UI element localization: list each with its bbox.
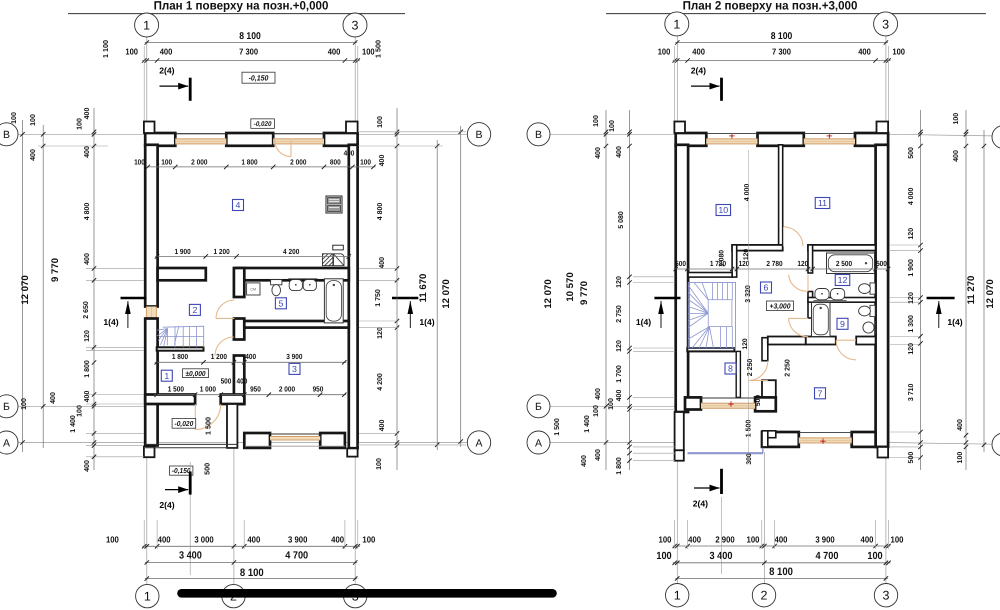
bathroom south wall (244, 321, 348, 328)
svg-text:4 200: 4 200 (377, 373, 384, 391)
axis2 wall lower seg (234, 356, 244, 405)
ext bottom r 875.6 (875, 520, 877, 549)
svg-text:Б: Б (535, 401, 542, 413)
axis circle 3 top (343, 13, 367, 37)
divider rooms 10-11 (779, 145, 783, 246)
electrical panel room4 (326, 196, 342, 213)
section mark 2(4) top (159, 65, 190, 100)
svg-text:100: 100 (957, 452, 964, 464)
svg-text:100: 100 (21, 398, 28, 410)
svg-text:400: 400 (158, 535, 171, 545)
bath9 bottom wall right (856, 337, 875, 345)
svg-text:400: 400 (160, 47, 173, 57)
radiator room4 (333, 245, 344, 250)
svg-text:1 800: 1 800 (241, 158, 257, 167)
svg-text:2 000: 2 000 (290, 158, 306, 167)
ext right r y302.2 (889, 301, 919, 303)
axis circle A right (467, 431, 490, 454)
svg-text:2 780: 2 780 (766, 259, 782, 268)
section mark 1(4) left (103, 298, 146, 328)
dim line top row2 (142, 58, 360, 62)
door bathroom D2 (216, 300, 234, 318)
svg-text:7 300: 7 300 (772, 47, 791, 57)
axis line 3 top r (885, 36, 887, 127)
terrace french window (245, 434, 345, 446)
room label 10 (716, 205, 731, 216)
bathtub room9 (812, 303, 831, 337)
svg-text:400: 400 (957, 419, 964, 431)
axis circle B right (467, 123, 490, 146)
corner block bottom-left r (675, 450, 684, 460)
svg-text:100: 100 (656, 551, 671, 562)
ext line porch v (189, 462, 191, 575)
axis circle B left r (527, 123, 550, 146)
double sink room12 (814, 289, 847, 301)
axis circle A right edge (992, 433, 1000, 456)
room10 bottom wall left part (688, 273, 732, 278)
room label 9 (837, 318, 848, 329)
bath9 bottom wall left (806, 337, 836, 345)
dim line bottom row1 r (673, 544, 891, 548)
svg-text:400: 400 (379, 257, 386, 269)
svg-text:400: 400 (858, 47, 871, 57)
balcony right wall stub (762, 431, 768, 447)
svg-text:12 070: 12 070 (543, 279, 554, 308)
svg-text:11 670: 11 670 (418, 274, 429, 303)
axis circle Bb left r (527, 395, 550, 418)
svg-text:11: 11 (818, 198, 827, 208)
svg-text:100: 100 (747, 534, 760, 544)
svg-text:400: 400 (331, 535, 344, 545)
svg-text:1 500: 1 500 (374, 40, 383, 58)
dim line under top wall (146, 165, 376, 169)
svg-text:3 400: 3 400 (179, 551, 202, 562)
window left wall (146, 307, 156, 319)
svg-text:8: 8 (728, 364, 733, 374)
svg-text:+3,000: +3,000 (770, 301, 792, 310)
elevation -0,150 top (242, 72, 275, 83)
svg-text:8 100: 8 100 (240, 567, 264, 579)
svg-text:100: 100 (593, 405, 600, 417)
svg-text:400: 400 (595, 147, 602, 159)
svg-text:А: А (475, 437, 482, 449)
svg-text:2(4): 2(4) (159, 65, 174, 75)
ext bottom r 774.6 (774, 520, 776, 549)
right wall (349, 145, 358, 448)
bathtub room5 (324, 279, 343, 323)
ext left y350.7 (86, 350, 144, 352)
corner block bottom-right r (878, 447, 889, 458)
svg-text:400: 400 (247, 535, 260, 545)
ext bottom r 761.8 (761, 520, 763, 549)
dim line y268 r (674, 267, 891, 271)
svg-text:300: 300 (746, 453, 753, 465)
svg-text:100: 100 (376, 458, 383, 470)
svg-text:3 000: 3 000 (194, 535, 213, 545)
room label 8 (725, 363, 736, 374)
terrace wall right seg (320, 433, 345, 448)
svg-text:2 650: 2 650 (83, 301, 90, 319)
dim chain line left (93, 108, 95, 470)
svg-text:100: 100 (609, 120, 616, 132)
stairs second floor (688, 283, 735, 349)
hall-bath12 wall lower (808, 292, 813, 319)
svg-text:5: 5 (278, 299, 283, 309)
pilaster top-left r (674, 122, 685, 134)
window top r2 (804, 133, 855, 144)
axis circle 1 top (135, 13, 159, 37)
svg-text:-0,020: -0,020 (175, 419, 194, 428)
interior wall room4 south right (237, 268, 349, 280)
svg-text:-0,150: -0,150 (172, 466, 191, 475)
room label 5 (275, 298, 286, 309)
svg-text:7: 7 (818, 389, 823, 399)
room10 bottom wall right part (732, 245, 783, 251)
sink room9 (863, 321, 876, 334)
title underline (68, 13, 405, 15)
axis circle Bb left (0, 395, 18, 418)
axis line A horiz (18, 442, 468, 444)
axis line 3 bottom (354, 457, 356, 584)
axis line A horiz r2 (888, 443, 1000, 445)
svg-text:100: 100 (77, 118, 84, 130)
top wall middle pier r (758, 133, 804, 146)
bathtub room12 (827, 253, 875, 274)
axis2 wall upper seg (234, 268, 244, 297)
svg-text:1 800: 1 800 (616, 457, 623, 475)
svg-text:1: 1 (164, 371, 169, 381)
dim line 9770 left (42, 125, 44, 448)
ext bottom r 674.7 (674, 520, 676, 549)
ext right r y245 (889, 244, 919, 246)
ext left r y351.4 (633, 350, 675, 352)
axis circle 2 bottom r (752, 584, 775, 607)
svg-text:4 800: 4 800 (377, 203, 384, 221)
elevation +3,000 (767, 301, 794, 311)
ext left r y282.5 (633, 282, 675, 284)
window top r1 (706, 133, 757, 144)
svg-text:100: 100 (892, 47, 905, 57)
svg-text:500: 500 (908, 452, 915, 464)
svg-text:1 800: 1 800 (172, 352, 188, 361)
svg-text:100: 100 (125, 47, 138, 57)
svg-text:500: 500 (876, 259, 887, 268)
svg-text:100: 100 (659, 534, 672, 544)
svg-text:1 500: 1 500 (168, 384, 184, 393)
top wall middle pier (226, 133, 273, 146)
svg-text:950: 950 (250, 384, 261, 393)
dim line 11670 (436, 140, 438, 450)
svg-text:500: 500 (221, 376, 232, 385)
dim line y362 (155, 360, 347, 364)
door bath9 (789, 318, 809, 336)
ext left y268.4 (86, 267, 144, 269)
svg-text:1: 1 (673, 17, 680, 31)
room label 7 (815, 388, 826, 399)
ext right y327.6 (359, 327, 399, 329)
ext right r y250.6 (889, 250, 919, 252)
svg-text:1 750: 1 750 (375, 289, 382, 307)
wall at axis Bb left (145, 395, 195, 405)
svg-text:1(4): 1(4) (636, 317, 651, 327)
svg-text:120: 120 (616, 276, 623, 288)
ext left r y276.8 (633, 276, 675, 278)
axis circle A left r (527, 431, 550, 454)
axis line 1 top (146, 37, 148, 127)
svg-text:3 900: 3 900 (815, 534, 834, 544)
bath12-bath9 divider (808, 298, 876, 303)
svg-text:400: 400 (692, 47, 705, 57)
svg-text:А: А (535, 437, 542, 449)
wall Bb mid seg r (755, 397, 776, 411)
door room7 (749, 361, 768, 381)
room7 bottom wall right (852, 432, 876, 447)
axis circle 1 bottom r (666, 584, 689, 607)
corner block bottom-left (144, 446, 155, 457)
ext bottom 357.8 (357, 520, 359, 549)
scale bar (182, 589, 553, 598)
svg-text:-0,020: -0,020 (254, 121, 272, 128)
window W2 top (273, 134, 324, 145)
svg-text:12: 12 (838, 275, 848, 285)
dim line outer right r (965, 110, 967, 470)
svg-text:1 400: 1 400 (584, 415, 591, 433)
ext right r y457.5 (889, 457, 919, 459)
svg-text:4 700: 4 700 (816, 551, 839, 562)
svg-text:12 070: 12 070 (441, 279, 452, 308)
stairwell step wall (732, 245, 737, 277)
svg-text:2 000: 2 000 (191, 158, 207, 167)
svg-text:100: 100 (362, 535, 375, 545)
ext right r y344.5 (889, 344, 919, 346)
svg-text:-0,150: -0,150 (249, 73, 270, 82)
corner block bottom-right (347, 448, 357, 456)
svg-text:11 270: 11 270 (966, 276, 977, 305)
ext right y321 (359, 320, 399, 322)
svg-text:План 2 поверху на позн.+3,000: План 2 поверху на позн.+3,000 (683, 0, 858, 13)
svg-text:1 500: 1 500 (746, 420, 753, 438)
ext 131.8 right (358, 131, 466, 133)
ext bottom r 687.6 (687, 520, 689, 549)
svg-text:1: 1 (143, 19, 150, 33)
toilet room9 (859, 305, 876, 316)
axis circle B left (0, 123, 18, 146)
svg-text:5 080: 5 080 (618, 211, 625, 229)
svg-text:100: 100 (30, 114, 37, 126)
svg-text:4 700: 4 700 (285, 551, 308, 562)
ext line porch v r (721, 497, 723, 574)
ext right r y297.5 (889, 297, 919, 299)
svg-text:400: 400 (344, 149, 355, 158)
svg-text:9: 9 (840, 319, 845, 329)
corner shower (322, 254, 344, 266)
stairs bottom edge wall (157, 347, 204, 350)
section mark 2(4) bottom r (693, 469, 722, 509)
section mark 1(4) right (392, 298, 435, 328)
ext right y280.3 (359, 279, 399, 281)
dim line chain right r (920, 110, 922, 470)
svg-text:400: 400 (328, 47, 341, 57)
toilet room5 (271, 280, 282, 296)
svg-text:2(4): 2(4) (691, 65, 706, 75)
svg-text:2: 2 (761, 589, 768, 603)
svg-text:±0,000: ±0,000 (185, 369, 205, 378)
svg-text:100: 100 (360, 158, 371, 167)
title underline 2 (606, 13, 986, 15)
svg-text:950: 950 (313, 384, 324, 393)
dim line bottom row3 r (675, 576, 888, 580)
pilaster top-right r (877, 122, 889, 134)
section mark 1(4) left r (636, 298, 681, 328)
ext right y433.4 (359, 432, 399, 434)
axis circle A left (0, 431, 18, 454)
door room3 D3 (215, 337, 234, 356)
svg-text:8 100: 8 100 (771, 31, 793, 42)
svg-text:100: 100 (377, 116, 384, 128)
dim line bottom row1 (142, 544, 360, 548)
right wall r (876, 145, 889, 447)
svg-text:400: 400 (688, 534, 701, 544)
ext left r y348 (633, 347, 675, 349)
dim line bottom row3 (145, 576, 358, 580)
svg-text:120: 120 (797, 259, 808, 268)
ext left r y409.5 (633, 409, 675, 411)
ext right r y446.9 (889, 446, 919, 448)
svg-text:100: 100 (953, 113, 960, 125)
ext bottom 244.2 (243, 520, 245, 549)
ext bottom 344.9 (344, 520, 346, 549)
wall at axis Bb right (221, 395, 245, 405)
svg-text:В: В (475, 129, 482, 141)
svg-text:500: 500 (755, 395, 762, 407)
elevation +-0,000 (183, 369, 209, 378)
ext left r y446.9 (633, 446, 675, 448)
svg-text:7 300: 7 300 (239, 47, 258, 57)
window W1 top (175, 134, 226, 145)
balcony step block (768, 431, 776, 438)
svg-text:3 900: 3 900 (288, 535, 307, 545)
ext left y433.4 (86, 432, 144, 434)
ext line hall v r (748, 150, 750, 460)
svg-text:400: 400 (953, 150, 960, 162)
svg-text:В: В (535, 129, 542, 141)
dim line 12070 right (460, 126, 462, 447)
wall Bb left seg r (685, 397, 701, 409)
svg-text:9 770: 9 770 (579, 281, 590, 305)
ext left r y460.7 (633, 460, 675, 462)
svg-text:2 500: 2 500 (836, 259, 852, 268)
svg-text:1 300: 1 300 (908, 315, 915, 333)
toilet room12 (859, 283, 876, 294)
axis line B horiz (18, 133, 468, 135)
svg-text:120: 120 (908, 228, 915, 240)
top wall left block r (676, 133, 707, 146)
svg-text:4 000: 4 000 (744, 184, 751, 202)
svg-text:Б: Б (3, 401, 10, 413)
dim line 8100 top (145, 40, 358, 44)
axis line 3 bottom r (885, 457, 887, 583)
svg-text:3 900: 3 900 (286, 352, 302, 361)
svg-text:2(4): 2(4) (159, 500, 174, 510)
svg-text:2 250: 2 250 (785, 359, 792, 377)
balcony edge blue (688, 438, 764, 454)
svg-text:А: А (3, 437, 10, 449)
svg-text:3: 3 (882, 17, 889, 31)
svg-text:2: 2 (192, 305, 197, 315)
svg-text:1 500: 1 500 (554, 418, 561, 436)
ext right r y336.5 (889, 336, 919, 338)
axis line A horiz r (550, 442, 675, 444)
svg-text:400: 400 (616, 146, 623, 158)
hall west wall thin (736, 351, 740, 397)
porch right wall (227, 404, 237, 448)
stairs first floor (157, 326, 204, 347)
room label 11 (815, 198, 830, 209)
ext bottom r 888.5 (888, 520, 890, 549)
svg-text:2 250: 2 250 (747, 359, 754, 377)
svg-text:3: 3 (883, 589, 890, 603)
ext left y445.6 (86, 445, 144, 447)
svg-text:2 000: 2 000 (279, 384, 295, 393)
axis circle 2 bottom (222, 584, 245, 607)
washing machine (247, 283, 260, 295)
svg-text:1: 1 (144, 590, 151, 604)
svg-text:400: 400 (30, 149, 37, 161)
svg-text:План 1 поверху на позн.+0,000: План 1 поверху на позн.+0,000 (154, 0, 329, 13)
dim line chain1 r (605, 110, 607, 470)
ext line top right r (888, 46, 890, 127)
svg-text:400: 400 (84, 253, 91, 265)
svg-text:400: 400 (84, 460, 91, 472)
svg-text:400: 400 (236, 376, 247, 385)
svg-text:400: 400 (84, 391, 91, 403)
ext line top left (143, 46, 145, 127)
svg-text:3 400: 3 400 (710, 551, 733, 562)
ext y146 left (38, 145, 108, 147)
ext line top right (357, 46, 359, 127)
axis circle 1 top r (665, 12, 689, 36)
svg-text:9 770: 9 770 (50, 258, 61, 282)
svg-text:1 080: 1 080 (718, 250, 725, 267)
axis circle B right edge (992, 126, 1000, 149)
elevation -0,150 (170, 466, 193, 475)
svg-text:100: 100 (134, 158, 145, 167)
svg-text:4 800: 4 800 (84, 203, 91, 221)
ext right r y432 (889, 431, 919, 433)
stairs bottom edge r (687, 348, 734, 351)
section mark 2(4) bottom (159, 472, 190, 511)
dim line y256 (155, 254, 351, 258)
svg-text:3: 3 (292, 364, 297, 374)
svg-text:500: 500 (202, 463, 211, 475)
svg-text:8 100: 8 100 (239, 31, 261, 42)
ext line top left r (674, 46, 676, 127)
room7 top wall (768, 337, 806, 345)
svg-text:3: 3 (352, 19, 359, 33)
left wall upper (145, 145, 157, 307)
svg-text:400: 400 (775, 534, 788, 544)
svg-text:400: 400 (616, 390, 623, 402)
svg-text:120: 120 (743, 249, 750, 261)
left wall lower (145, 319, 157, 446)
svg-text:400: 400 (84, 108, 91, 120)
axis2 wall mid seg (234, 319, 244, 340)
ext 146 right (358, 145, 443, 147)
svg-text:1 400: 1 400 (70, 415, 77, 433)
svg-text:400: 400 (379, 420, 386, 432)
ext left r y453.2 (633, 452, 675, 454)
svg-text:120: 120 (616, 340, 623, 352)
